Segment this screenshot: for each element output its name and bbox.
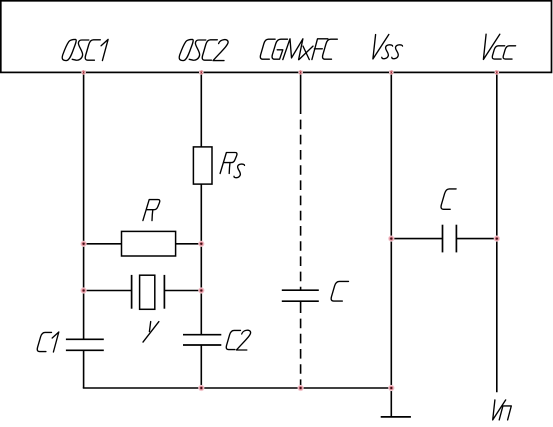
ground bar [381,416,411,418]
IC box (MCU outline with pin names) [1,1,552,73]
resistor Rs [193,147,212,184]
capacitor C2 top plate [183,334,221,336]
junction at R right on OSC2 wire [198,241,204,247]
junction Vss at bottom rail [388,385,394,391]
label C2 [226,330,240,349]
crystal Y1 body [140,275,155,309]
wire OSC2 lower (C2 to bottom rail) [200,345,202,388]
junction OSC2 at bottom rail [198,385,204,391]
capacitor C1 bottom plate [66,349,104,351]
label Vn [493,400,506,420]
junction bypass cap left on Vss wire [388,236,394,242]
pin mark Vcc [495,70,500,75]
junction at crystal right on OSC2 wire [198,287,204,293]
label R [143,200,160,221]
label Rs [220,153,237,174]
capacitor C2 bottom plate [183,344,221,346]
bypass capacitor C wire left (Vss side) [391,238,442,240]
pin mark OSC1 [81,70,86,75]
pin mark Vss [389,70,394,75]
capacitor C1 top plate [66,338,104,340]
CGMxFC dashed wire lower dashes [300,313,302,388]
ground stem [390,388,392,417]
wire OSC2 upper (box to Rs) [200,72,202,146]
label C (CGMxFC cap) [331,281,348,301]
bypass capacitor C wire right (Vcc side) [456,238,496,240]
pin mark OSC2 [199,70,204,75]
label C1 [37,332,51,351]
wire bottom rail [83,387,392,389]
wire Vcc vertical [496,72,498,392]
wire Vss vertical [390,72,392,388]
bypass capacitor C right plate [455,225,457,253]
pin label OSC1 [62,39,76,60]
wire OSC2 mid (Rs to C2) [200,184,202,335]
crystal Y1 right plate [163,275,165,309]
label C (bypass cap) [441,189,456,209]
wire R right [176,243,202,245]
capacitor C (on CGMxFC) top plate [282,289,319,291]
CGMxFC dashed wire lower solid stub [300,301,302,313]
pin label CGMxFC [260,39,275,59]
crystal Y1 left plate [131,275,133,309]
junction at crystal left on OSC1 wire [81,287,87,293]
junction at R left on OSC1 wire [81,241,87,247]
label Y [149,322,150,332]
pin label Vss [373,35,389,60]
pin mark CGMxFC [298,70,303,75]
crystal Y1 right lead [164,290,201,292]
capacitor C (on CGMxFC) bottom plate [282,300,319,302]
crystal Y1 left lead [84,290,132,292]
junction CGMxFC at bottom rail [298,385,304,391]
wire OSC1 lower (C1 to bottom rail) [83,350,85,388]
bypass capacitor C left plate [442,225,444,253]
CGMxFC dashed wire upper solid stub [300,72,302,114]
pin label OSC2 [179,39,193,60]
wire R left [84,243,122,245]
CGMxFC dashed wire upper dashes [300,114,302,290]
wire OSC1 vertical (box to C1) [83,72,85,339]
pin label Vcc [483,34,499,59]
resistor R [122,231,176,256]
junction bypass cap right on Vcc wire [494,236,500,242]
